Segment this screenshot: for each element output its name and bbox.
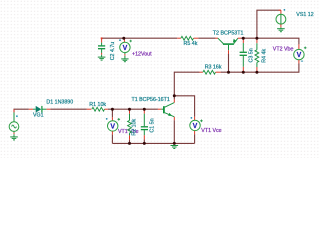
svg-text:VG1: VG1 — [33, 112, 44, 118]
wire T1 collector row to VT1 Vce — [174, 96, 194, 117]
junction node (R4 top / VS1 riser) — [255, 37, 258, 40]
resistor R3 — [200, 70, 221, 74]
resistor R1 — [87, 107, 108, 111]
wire T2 base drop — [228, 54, 230, 73]
junction node (VM +12Vout tap) — [122, 37, 125, 40]
svg-text:R5 4k: R5 4k — [184, 41, 198, 47]
sine source VG1 — [9, 109, 19, 137]
svg-text:T1 BCP56-16T1: T1 BCP56-16T1 — [132, 97, 170, 103]
voltmeter VT1 Vbe — [106, 117, 120, 134]
wire ground rail — [112, 142, 194, 144]
wire VT1 Vbe column — [111, 109, 113, 117]
wire top rail right (T2 collector to VT2) — [241, 38, 299, 44]
voltmeter +12Vout — [119, 38, 132, 59]
ground (VG1) — [10, 137, 18, 140]
voltmeter VT1 Vce — [190, 117, 203, 134]
resistor R2 — [128, 109, 132, 140]
voltmeter VT2 Vbe — [294, 44, 307, 63]
wire VT1 Vce bottom — [194, 134, 196, 143]
svg-text:R1 10k: R1 10k — [89, 102, 106, 108]
wire top rail left (C2 to R5) — [102, 37, 178, 39]
svg-text:R3 16k: R3 16k — [205, 65, 222, 71]
wire R2 bottom — [129, 140, 131, 144]
junction node (C3 top) — [242, 37, 245, 40]
junction node (R4 bottom) — [255, 71, 258, 74]
svg-text:R4 4k: R4 4k — [262, 49, 268, 63]
wire VT1 Vbe bottom — [111, 135, 113, 144]
junction node (ground rail) — [173, 142, 176, 145]
wire T1 collector stub — [173, 96, 175, 100]
ground (VS1) — [277, 29, 285, 32]
wire top rail (R5 to T2 emitter) — [198, 37, 215, 39]
wire R3 row — [174, 72, 199, 96]
svg-text:C3 5n: C3 5n — [248, 48, 254, 62]
capacitor C2 — [98, 37, 105, 57]
wire D1 to R1 — [50, 108, 86, 110]
capacitor C1 — [141, 109, 148, 139]
wire VG1 to bottom row — [14, 109, 29, 112]
svg-text:V: V — [110, 123, 115, 130]
svg-text:V: V — [297, 52, 302, 59]
junction node (R2 bottom) — [128, 142, 131, 145]
svg-text:V: V — [123, 45, 128, 52]
transistor T1 (NPN BCP56) — [158, 99, 174, 120]
resistor R5 — [177, 36, 198, 40]
transistor T2 (PNP BCP53) — [215, 38, 241, 54]
junction node (VT1 Vbe top) — [111, 108, 114, 111]
svg-text:VS1 12: VS1 12 — [296, 12, 313, 18]
wire R1 to T1 base node — [108, 108, 158, 110]
ground (+12Vout meter) — [121, 59, 128, 62]
svg-text:C2 4.7u: C2 4.7u — [110, 42, 116, 61]
svg-text:D1 1N3890: D1 1N3890 — [46, 99, 73, 105]
svg-text:VT2 Vbe: VT2 Vbe — [273, 47, 294, 53]
resistor R4 — [255, 38, 259, 72]
svg-text:T2 BCP53T1: T2 BCP53T1 — [213, 31, 244, 37]
voltage source VS1 — [276, 9, 286, 29]
junction node (C1 bottom) — [143, 142, 146, 145]
svg-text:+12Vout: +12Vout — [132, 52, 152, 58]
ground (main rail, T1 emitter) — [171, 146, 179, 149]
wire R3 row right — [221, 63, 299, 72]
junction node (R2 top) — [128, 108, 131, 111]
svg-text:V: V — [193, 123, 198, 130]
junction node (C1 top) — [143, 108, 146, 111]
svg-text:VT1 Vce: VT1 Vce — [201, 128, 221, 134]
capacitor C3 — [240, 38, 247, 72]
svg-text:R2 10k: R2 10k — [131, 118, 137, 135]
junction node (T1 collector) — [173, 94, 176, 97]
svg-text:C1 5n: C1 5n — [149, 118, 155, 132]
ground (C2) — [98, 57, 106, 60]
wire T1 emitter drop — [173, 120, 175, 143]
junction node (C3 bottom) — [242, 71, 245, 74]
diode D1 — [29, 106, 51, 113]
wire C1 bottom — [143, 139, 145, 143]
junction node (T2 base row) — [227, 71, 230, 74]
wire riser to VS1 — [257, 10, 281, 38]
